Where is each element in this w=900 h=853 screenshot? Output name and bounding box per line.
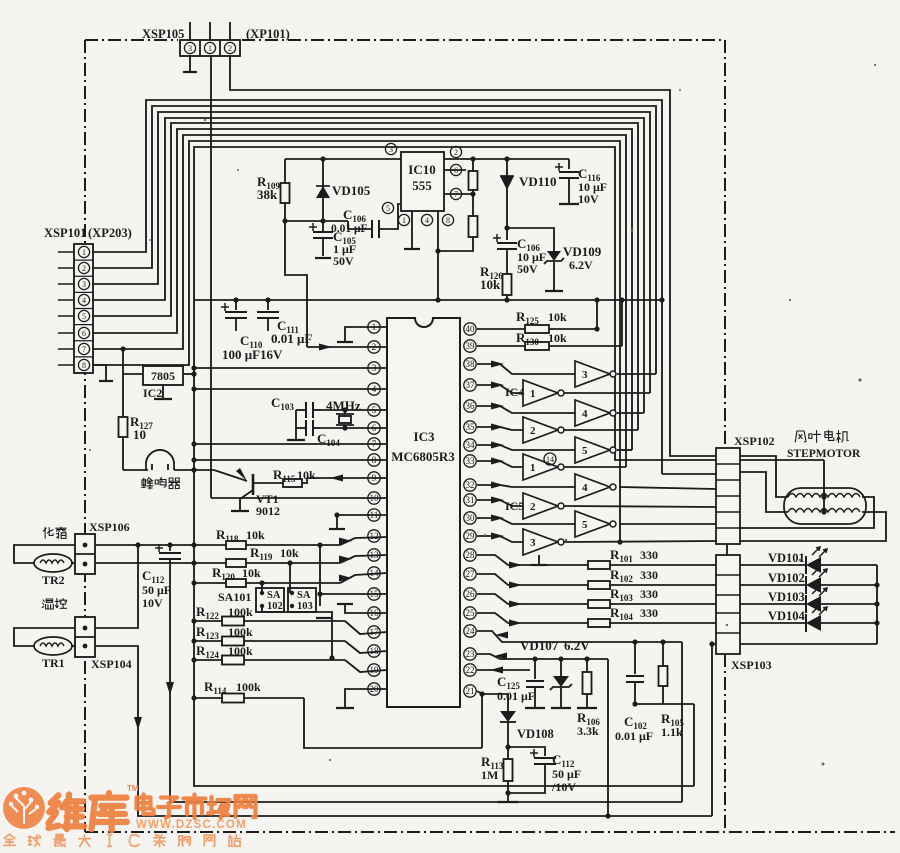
wire motor bottom coil return xyxy=(740,512,886,541)
wire R119 row (TR2 to IC3 pin13) xyxy=(95,562,340,564)
pin 4 of IC10 xyxy=(421,214,432,225)
junction VD110 bottom xyxy=(504,225,509,230)
pin 8 of IC10 xyxy=(442,214,453,225)
svg-text:VD103: VD103 xyxy=(768,590,805,604)
arrow out of pin22 xyxy=(490,667,503,674)
wire 555 pin6 stub xyxy=(444,169,466,171)
diode VD108 xyxy=(507,694,509,711)
svg-text:23: 23 xyxy=(466,649,476,659)
svg-text:28: 28 xyxy=(466,550,476,560)
pin 10 of IC3 xyxy=(368,492,380,504)
inverter gate 3 at y=374 xyxy=(575,361,610,387)
resistor R109 xyxy=(284,159,286,221)
wire IC3 pin10 row xyxy=(211,497,387,499)
capacitor C112 (50uF 10V) xyxy=(169,545,171,551)
buzzer 蜂鸣器 xyxy=(123,469,148,471)
LED VD104 xyxy=(740,622,806,624)
wire right bus to row24 xyxy=(681,642,683,802)
wire motor top coil return xyxy=(740,497,874,528)
svg-text:10k: 10k xyxy=(548,310,567,324)
svg-text:25: 25 xyxy=(466,608,476,618)
svg-text:VD110: VD110 xyxy=(519,174,557,189)
wire main horizontal rail xyxy=(194,299,662,301)
svg-text:5: 5 xyxy=(582,519,588,531)
pin 33 of IC3 xyxy=(464,455,476,467)
svg-text:3.3k: 3.3k xyxy=(577,724,599,738)
wire C102/R105 bottom node xyxy=(635,703,694,705)
svg-text:WWW.DZSC.COM: WWW.DZSC.COM xyxy=(136,819,247,831)
resistor 555 timing lower xyxy=(472,190,474,216)
svg-text:40: 40 xyxy=(466,324,476,334)
resistor R113 xyxy=(507,747,509,759)
pin 3 of IC10 xyxy=(385,143,396,154)
ground under R113 xyxy=(507,793,509,801)
inverter IC4/IC5 gate 1 at y=393 xyxy=(523,380,558,406)
wire IC3 pin row 461 to inverter input xyxy=(477,461,523,467)
capacitor C112 (50uF 10V bottom) xyxy=(508,747,545,756)
pin 39 of IC3 xyxy=(464,340,476,352)
svg-text:STEPMOTOR: STEPMOTOR xyxy=(787,448,861,460)
wire 555 pin1 ground xyxy=(411,211,413,248)
wire XSP101 left stubs xyxy=(58,251,74,253)
wire crystal ground xyxy=(295,410,297,439)
pin 30 of IC3 xyxy=(464,512,476,524)
svg-text:(XP101): (XP101) xyxy=(246,27,290,41)
inverter gate 4 at y=487 xyxy=(575,474,610,500)
diode VD105 xyxy=(322,159,324,221)
svg-text:VD108: VD108 xyxy=(517,727,554,741)
wire IC3 pin row 536 to inverter input xyxy=(477,536,523,542)
svg-text:14: 14 xyxy=(546,455,554,464)
svg-text:VD105: VD105 xyxy=(332,183,371,198)
label 蜂鸣器 xyxy=(142,478,180,490)
label 风叶电机 xyxy=(795,430,848,442)
crystal 4MHz xyxy=(344,410,346,414)
resistor R119 xyxy=(226,559,246,567)
wire IC3 pin6 row xyxy=(320,427,387,429)
wire IC3 pin2 from 555 xyxy=(307,346,387,348)
capacitor C106 (10uF 50V) xyxy=(506,228,508,240)
wire XSP101 pin7 to 7805 xyxy=(120,346,125,351)
svg-text:XSP104: XSP104 xyxy=(91,657,132,671)
svg-text:103: 103 xyxy=(297,601,313,612)
diode VD110 xyxy=(506,159,508,228)
pin 2 of IC3 xyxy=(368,341,380,353)
svg-text:2: 2 xyxy=(530,425,536,437)
pin 1 of IC10 xyxy=(398,214,409,225)
LED VD102 xyxy=(740,584,806,586)
pin 24 of IC3 xyxy=(464,625,476,637)
wire 7805 output to bus xyxy=(183,373,194,375)
svg-text:36: 36 xyxy=(466,401,476,411)
wire stubs above XSP105 xyxy=(189,22,191,40)
svg-text:10k: 10k xyxy=(242,566,261,580)
svg-text:XSP103: XSP103 xyxy=(731,658,772,672)
svg-text:10k: 10k xyxy=(548,331,567,345)
inverter gate 4 at y=413 xyxy=(575,400,610,426)
svg-text:XSP101: XSP101 xyxy=(44,226,86,240)
pin 28 of IC3 xyxy=(464,549,476,561)
capacitor C103 xyxy=(296,409,306,411)
svg-text:10: 10 xyxy=(133,427,146,442)
svg-text:TR2: TR2 xyxy=(42,573,65,587)
wire IC3 pin16 ground xyxy=(345,605,387,613)
connector XSP102 xyxy=(716,448,740,544)
wire R124 row to pin19 xyxy=(194,659,345,661)
resistor R104 xyxy=(588,619,610,627)
svg-text:10k: 10k xyxy=(480,277,501,292)
wire R109 bottom to IC3 pin2 xyxy=(285,221,307,347)
svg-text:35: 35 xyxy=(466,422,476,432)
svg-text:102: 102 xyxy=(267,601,283,612)
resistor R114 xyxy=(222,694,244,703)
wire IC3 pin1 termination xyxy=(345,327,387,341)
arrow into pin12 xyxy=(339,538,352,545)
wire XSP101 pin8 ground stub xyxy=(93,365,106,380)
svg-text:34: 34 xyxy=(466,440,476,450)
svg-text:4: 4 xyxy=(82,296,86,305)
svg-text:VD107: VD107 xyxy=(520,638,559,653)
watermark logo circle xyxy=(3,787,45,829)
svg-text:10V: 10V xyxy=(142,596,163,610)
connector XSP103 xyxy=(726,544,728,555)
svg-text:1M: 1M xyxy=(481,768,498,782)
pin 29 of IC3 xyxy=(464,530,476,542)
wire IC3 pin21 row xyxy=(477,691,508,694)
svg-text:1: 1 xyxy=(82,248,86,257)
pin 32 of IC3 xyxy=(464,479,476,491)
svg-text:TR1: TR1 xyxy=(42,656,65,670)
watermark 电子市场网 xyxy=(137,795,256,819)
wire bundle line from XSP101 pin3 xyxy=(93,112,650,393)
wire IC3 pin row 518 to inverter input xyxy=(477,518,575,524)
svg-text:10k: 10k xyxy=(280,546,299,560)
svg-text:27: 27 xyxy=(466,569,476,579)
svg-text:3: 3 xyxy=(582,369,588,381)
svg-text:SA101: SA101 xyxy=(218,590,251,604)
wire SA pullups xyxy=(261,583,263,593)
capacitor C104 xyxy=(296,427,306,429)
wire IC3 pin5 row xyxy=(320,409,387,411)
wire R123 row to pin18 xyxy=(194,640,345,642)
svg-text:39: 39 xyxy=(466,341,476,351)
svg-text:12: 12 xyxy=(370,531,379,541)
svg-text:1: 1 xyxy=(530,388,536,400)
svg-text:(XP203): (XP203) xyxy=(88,226,132,240)
wire bundle line from XSP101 pin2 xyxy=(93,106,656,374)
wire 555 pin7 stub xyxy=(444,193,473,195)
sensor TR2 xyxy=(14,545,75,563)
wire IC3 pin row 364 to inverter input xyxy=(477,364,575,374)
connector XSP104 xyxy=(75,617,95,657)
wire bus to bottom rail xyxy=(194,698,694,786)
ground SA common xyxy=(316,617,332,619)
pin 37 of IC3 xyxy=(464,379,476,391)
svg-text:0.01 μF: 0.01 μF xyxy=(497,689,535,703)
svg-text:4: 4 xyxy=(582,482,588,494)
wire bundle cell2 feed into XSP102 xyxy=(662,473,716,475)
svg-text:0.01 μF: 0.01 μF xyxy=(331,223,368,235)
svg-text:0.01 μF: 0.01 μF xyxy=(271,331,312,346)
svg-text:8: 8 xyxy=(446,216,450,225)
svg-text:555: 555 xyxy=(412,178,432,193)
svg-text:VD109: VD109 xyxy=(563,244,602,259)
wire XSP105 pin2 to right-side vertical (power line) xyxy=(230,56,716,456)
transistor VT1 9012 xyxy=(214,470,247,481)
label 温控 xyxy=(42,599,66,610)
wire IC3 pin row 445 to inverter input xyxy=(477,445,575,450)
wire IC3 pin row 427 to inverter input xyxy=(477,427,523,430)
pin 6 of IC10 xyxy=(450,164,461,175)
wire IC3 pin7 row xyxy=(194,443,387,445)
svg-text:3: 3 xyxy=(530,537,536,549)
arrow down on C112 line xyxy=(166,682,174,695)
svg-text:3: 3 xyxy=(389,145,393,154)
wire R122 row to pin17 xyxy=(194,620,345,622)
svg-text:4MHz: 4MHz xyxy=(326,398,361,413)
resistor R120 xyxy=(226,579,246,587)
svg-text:330: 330 xyxy=(640,568,658,582)
svg-text:38: 38 xyxy=(466,359,476,369)
wire IC3 pin23 row xyxy=(477,654,608,659)
svg-text:50 μF: 50 μF xyxy=(552,767,581,781)
svg-text:330: 330 xyxy=(640,548,658,562)
inverter gate 5 at y=450 xyxy=(575,437,610,463)
capacitor C116 xyxy=(568,159,570,169)
IC IC10 555 xyxy=(401,152,444,211)
svg-text:100k: 100k xyxy=(228,605,253,619)
pin 35 of IC3 xyxy=(464,421,476,433)
border right lower xyxy=(724,654,726,832)
wire IC3 pin row 500 to inverter input xyxy=(477,500,523,506)
wire XSP102 cell1 to motor xyxy=(740,456,788,497)
border top-left segment xyxy=(85,39,178,41)
inverter IC4/IC5 gate 3 at y=542 xyxy=(523,529,558,555)
svg-text:7805: 7805 xyxy=(151,369,175,383)
svg-text:VD104: VD104 xyxy=(768,609,806,623)
zener diode VD107 xyxy=(560,659,562,676)
inverter IC4/IC5 gate 2 at y=430 xyxy=(523,417,558,443)
resistor R101 xyxy=(588,561,610,569)
arrow out of pin9 xyxy=(330,475,343,482)
pin 5 of IC10 xyxy=(382,202,393,213)
svg-text:1: 1 xyxy=(402,216,406,225)
svg-text:/10V: /10V xyxy=(551,780,576,794)
pin 23 of IC3 xyxy=(464,648,476,660)
watermark 维库 xyxy=(49,795,85,830)
svg-text:TM: TM xyxy=(127,784,139,793)
svg-text:100k: 100k xyxy=(228,625,253,639)
svg-text:100k: 100k xyxy=(228,644,253,658)
svg-text:26: 26 xyxy=(466,589,476,599)
svg-text:XSP102: XSP102 xyxy=(734,434,775,448)
svg-text:1.1k: 1.1k xyxy=(661,725,683,739)
svg-text:24: 24 xyxy=(466,626,476,636)
svg-text:21: 21 xyxy=(466,686,475,696)
IC2 7805 regulator xyxy=(123,373,143,375)
wire bottom bus (pin23 net) xyxy=(89,64,876,766)
pin 2 of IC10 xyxy=(450,146,461,157)
wire branch to discharge resistor xyxy=(438,237,473,251)
wire XSP105 pin1 vertical bus to IC3 pin10 xyxy=(210,56,212,498)
capacitor C105 xyxy=(322,221,324,232)
svg-text:33: 33 xyxy=(466,456,476,466)
inverter gate 5 at y=524 xyxy=(575,511,610,537)
svg-text:330: 330 xyxy=(640,587,658,601)
pin 12 of IC3 xyxy=(368,530,380,542)
border left xyxy=(84,40,86,832)
pin 14 of IC3 xyxy=(368,567,380,579)
zener diode VD109 xyxy=(507,228,554,251)
junction bundle line 8 on cell6 line xyxy=(617,539,622,544)
pin 7 of IC3 xyxy=(368,438,380,450)
wire IC3 pin8 row xyxy=(194,459,387,461)
pin 19 of IC3 xyxy=(368,664,380,676)
wire motor centre tap xyxy=(823,460,825,512)
svg-text:50 μF: 50 μF xyxy=(142,583,171,597)
label 化霜 xyxy=(43,527,66,538)
resistor R102 xyxy=(588,581,610,589)
resistor R105 xyxy=(662,642,664,666)
svg-text:4: 4 xyxy=(582,408,588,420)
svg-text:1: 1 xyxy=(208,44,212,53)
svg-text:37: 37 xyxy=(466,380,476,390)
svg-text:1: 1 xyxy=(530,462,536,474)
pin 15 of IC3 xyxy=(368,588,380,600)
arrow down on TR1 line xyxy=(134,717,142,730)
svg-text:XSP106: XSP106 xyxy=(89,520,130,534)
pin 1 of IC3 xyxy=(368,321,380,333)
pin 17 of IC3 xyxy=(368,626,380,638)
wire IC3 pin20 ground xyxy=(345,689,387,707)
pin 40 of IC3 xyxy=(464,323,476,335)
pin 4 of IC3 xyxy=(368,383,380,395)
wire 7805 ground xyxy=(162,385,164,398)
pin 31 of IC3 xyxy=(464,494,476,506)
svg-text:50V: 50V xyxy=(517,262,538,276)
wire main +5V bus vertical xyxy=(193,300,195,698)
svg-text:VD102: VD102 xyxy=(768,571,805,585)
svg-text:MC6805R3: MC6805R3 xyxy=(391,449,455,464)
svg-text:22: 22 xyxy=(466,665,475,675)
arrow into pin2 xyxy=(319,344,332,351)
wire IC3 pin row 485 to inverter input xyxy=(477,485,575,487)
wire resistor R102 row xyxy=(477,574,716,585)
wire resistor R103 row xyxy=(477,594,716,604)
wire bundle line from XSP101 pin5 xyxy=(93,123,638,430)
wire 555 pin4/8 down to rail xyxy=(437,211,439,300)
svg-text:7: 7 xyxy=(82,345,86,354)
capacitor C125 xyxy=(534,659,536,679)
wire LED common return xyxy=(876,565,878,644)
wire TR1 pin1 up to R118 row xyxy=(95,545,138,628)
arrow into pin14 xyxy=(339,575,352,582)
svg-text:IC10: IC10 xyxy=(408,162,435,177)
wire IC3 pin24 row xyxy=(477,631,682,642)
pin 34 of IC3 xyxy=(464,439,476,451)
svg-text:31: 31 xyxy=(466,495,475,505)
svg-text:100 μF16V: 100 μF16V xyxy=(222,347,283,362)
svg-text:2: 2 xyxy=(228,44,232,53)
svg-text:2: 2 xyxy=(82,264,86,273)
wire 555 top rail xyxy=(285,158,401,160)
svg-text:100k: 100k xyxy=(236,680,261,694)
border top-right segment xyxy=(242,39,725,41)
pin 7 of IC10 xyxy=(450,188,461,199)
pin 14 bubble label xyxy=(544,453,556,465)
sensor TR1 xyxy=(14,628,75,646)
pin 18 of IC3 xyxy=(368,645,380,657)
wire bundle innermost power line: bus down-left and motor feed down-right xyxy=(194,147,824,460)
inverter IC4/IC5 gate 2 at y=506 xyxy=(523,493,558,519)
wire IC3 pin row 385 to inverter input xyxy=(477,385,523,393)
resistor R103 xyxy=(588,600,610,608)
pin 26 of IC3 xyxy=(464,588,476,600)
svg-text:IC3: IC3 xyxy=(414,429,435,444)
wire IC3 pin15 row xyxy=(320,593,387,595)
VT1 base bar xyxy=(252,474,255,495)
svg-text:4: 4 xyxy=(425,216,429,225)
svg-text:5: 5 xyxy=(386,204,390,213)
wire SA commons down to R124 row xyxy=(262,606,332,658)
svg-text:10k: 10k xyxy=(297,468,316,482)
wire R109/VD105 bottom node xyxy=(285,220,348,222)
inverter IC4/IC5 gate 1 at y=467 xyxy=(523,454,558,480)
ground under IC5 gate 3 xyxy=(538,555,540,564)
svg-text:30: 30 xyxy=(466,513,476,523)
LED VD101 xyxy=(740,564,806,566)
svg-text:6.2V: 6.2V xyxy=(569,258,593,272)
wire bottom bus up to XSP103 xyxy=(712,644,716,816)
pin 36 of IC3 xyxy=(464,400,476,412)
svg-text:330: 330 xyxy=(640,606,658,620)
arrow into pin13 xyxy=(339,556,352,563)
watermark 全球最大IC采购网站 xyxy=(4,834,241,846)
wire IC3 pin9 row to R115 xyxy=(307,477,387,479)
svg-text:SA: SA xyxy=(297,590,311,601)
resistor R127 xyxy=(122,374,124,417)
pin 22 of IC3 xyxy=(464,664,476,676)
svg-text:38k: 38k xyxy=(257,187,278,202)
pin 38 of IC3 xyxy=(464,358,476,370)
resistor R118 xyxy=(226,541,246,549)
svg-text:10V: 10V xyxy=(578,192,599,206)
resistor R125 xyxy=(477,328,597,330)
LED VD103 xyxy=(740,603,806,605)
border right upper xyxy=(724,40,726,448)
junction VD105 top xyxy=(320,156,325,161)
wire IC3 pin22 row xyxy=(477,669,530,671)
svg-text:IC4: IC4 xyxy=(505,385,524,399)
capacitor C102 xyxy=(634,642,636,674)
wire IC3 pin3 row xyxy=(194,367,387,369)
svg-text:32: 32 xyxy=(466,480,475,490)
svg-text:50V: 50V xyxy=(333,254,354,268)
resistor 555 timing upper xyxy=(472,159,474,171)
wire IC3 pin4 row xyxy=(194,388,387,390)
svg-text:3: 3 xyxy=(82,280,86,289)
svg-text:0.01 μF: 0.01 μF xyxy=(615,729,653,743)
svg-text:2: 2 xyxy=(454,148,458,157)
wire R118 row (XSP106 pin1 to IC3 pin12) xyxy=(95,544,340,546)
wire stub bundle to inverter outputs xyxy=(617,373,656,375)
svg-text:5: 5 xyxy=(582,445,588,457)
capacitor C106 (0.01uF at 555) xyxy=(348,221,372,229)
arrow out of pin24 xyxy=(495,632,508,639)
wire gate outputs to XSP102 xyxy=(619,487,716,489)
pin 21 of IC3 xyxy=(464,685,476,697)
wire bundle line from XSP101 pin7 xyxy=(93,135,626,467)
